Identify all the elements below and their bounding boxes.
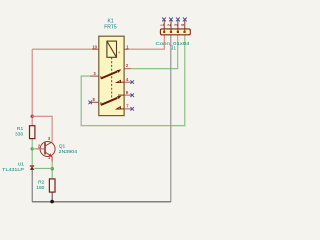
svg-text:FRT5: FRT5 <box>104 25 117 31</box>
J1 pad pin 3 <box>177 31 179 33</box>
svg-text:R2: R2 <box>38 179 45 185</box>
wire: green branch to Q1 base <box>32 148 35 150</box>
svg-text:160: 160 <box>36 185 44 191</box>
wire: dark R2 bottom to rail <box>51 192 53 202</box>
shunt regulator U1 TL431 <box>30 166 35 170</box>
relay K1 body <box>99 36 124 115</box>
relay pin 10 stub <box>92 48 99 50</box>
relay pin 3 stub <box>90 75 99 77</box>
relay pin 8 stub <box>90 101 99 103</box>
J1 pin 3 line <box>177 19 179 32</box>
svg-text:Conn_01x04: Conn_01x04 <box>156 41 190 46</box>
relay contact A NC mark (pin 4) <box>117 80 121 82</box>
no-connect X pin 4 <box>130 80 134 84</box>
J1 pad pin 4 <box>183 31 185 33</box>
J1 pin 4 line <box>184 19 186 32</box>
svg-text:+: + <box>118 50 121 55</box>
resistor R2 <box>49 179 55 192</box>
wire: red V+ horizontal to relay coil pin 10 <box>32 48 92 50</box>
svg-text:Q1: Q1 <box>59 144 66 150</box>
relay pin 9 stub <box>118 94 124 96</box>
relay pin 4 stub <box>121 81 125 83</box>
wire: green relay pin 2 to J1 pin 3 <box>131 35 178 69</box>
svg-text:R1: R1 <box>17 126 24 132</box>
wire: green relay pin 3 loop under relay to J1 pin 4 <box>81 35 185 126</box>
wire: green U1 REF to emitter junction <box>34 167 52 169</box>
J1 pin 2 line <box>170 19 172 32</box>
svg-text:K1: K1 <box>107 19 113 25</box>
relay pin 7 stub <box>120 108 124 110</box>
no-connect X J1 pin 4 <box>183 18 187 22</box>
no-connect X pin 8 <box>88 101 92 105</box>
transistor Q1 <box>35 142 55 162</box>
relay pin 1 stub <box>124 48 128 50</box>
no-connect X pin 7 <box>130 107 134 111</box>
node: green junction at Q1 base branch <box>31 147 34 150</box>
svg-text:2N3904: 2N3904 <box>59 149 78 155</box>
svg-text:U1: U1 <box>18 161 25 167</box>
no-connect X J1 pin 1 <box>162 18 166 22</box>
J1 pad pin 2 <box>170 31 172 33</box>
svg-text:10: 10 <box>92 44 97 49</box>
node: green junction at emitter/REF <box>51 167 54 170</box>
J1 pin 1 line <box>163 19 165 32</box>
resistor R1 <box>30 126 35 139</box>
wire: red from relay coil pin 1 to J1 pin 1 <box>129 35 165 49</box>
relay coil-contact dashed link <box>111 57 113 97</box>
wire: grey J1 pin 2 down right side <box>170 35 172 202</box>
background canvas <box>0 0 200 226</box>
no-connect X pin 9 <box>130 93 134 97</box>
wire: red branch to Q1 collector <box>32 116 52 141</box>
wire: dark bottom rail <box>32 201 171 203</box>
svg-text:330: 330 <box>15 131 23 137</box>
wire: green Q1 emitter to R2 top <box>51 162 53 179</box>
svg-text:J1: J1 <box>171 46 176 52</box>
wire: dark U1 anode down to rail <box>31 170 33 202</box>
wire: red V+ vertical left rail <box>31 49 33 126</box>
relay contact A arm (pin 3 to pin 2) <box>101 69 121 78</box>
svg-text:TL431LP: TL431LP <box>2 167 24 173</box>
relay K1 coil <box>107 41 117 57</box>
node: black junction at R2 bottom on rail <box>50 200 54 204</box>
wire: green R1 bottom to U1 cathode <box>31 139 33 166</box>
no-connect X J1 pin 3 <box>176 18 180 22</box>
J1 pad pin 1 <box>163 31 165 33</box>
relay contact B arm (pin 8 to pin 9) <box>101 96 122 105</box>
connector J1 body <box>160 29 190 35</box>
relay contact B NC mark (pin 7) <box>117 107 121 109</box>
no-connect X J1 pin 2 <box>169 18 173 22</box>
relay pin 2 stub <box>118 68 124 70</box>
node: red junction at R1 top branch <box>31 115 34 118</box>
